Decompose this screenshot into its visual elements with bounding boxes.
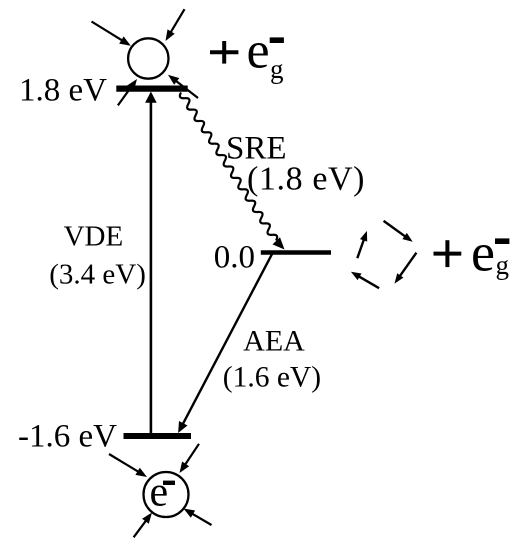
svg-text:1.8 eV: 1.8 eV bbox=[19, 72, 107, 108]
svg-text:g: g bbox=[496, 250, 510, 280]
svg-text:e: e bbox=[471, 223, 495, 283]
arrow VDE: vertical from -1.6 eV level up to 1.8 eV level bbox=[145, 92, 157, 434]
svg-text:-1.6 eV: -1.6 eV bbox=[18, 418, 117, 454]
circle with e(-): localized electron at -1.6 eV level bbox=[144, 470, 189, 518]
arrow AEA: from 0.0 level down to -1.6 eV level bbox=[178, 253, 273, 433]
level line 0.0 (neutral ground state) bbox=[261, 250, 331, 255]
level line -1.6 eV (anion ground state) bbox=[124, 433, 192, 439]
svg-text:AEA: AEA bbox=[243, 325, 305, 358]
svg-text:g: g bbox=[270, 54, 284, 84]
svg-text:(1.6 eV): (1.6 eV) bbox=[223, 361, 321, 393]
arrow into bottom circle, lower-right bbox=[184, 509, 212, 526]
svg-text:0.0: 0.0 bbox=[214, 240, 255, 276]
svg-text:(3.4 eV): (3.4 eV) bbox=[49, 259, 146, 291]
svg-text:e: e bbox=[150, 470, 169, 516]
formula + e_g^- (right of 0.0 level) bbox=[434, 223, 510, 283]
level line 1.8 eV (excited anion state) bbox=[116, 85, 187, 91]
svg-text:e: e bbox=[247, 23, 270, 80]
arrow into bottom circle, upper-left bbox=[109, 454, 147, 477]
arrow into top circle, lower-left bbox=[118, 79, 137, 105]
vibration arrow, right side pointing down-left bbox=[395, 253, 417, 284]
vibration arrow, top side pointing down-right bbox=[384, 221, 413, 242]
arrow into top circle, lower-right bbox=[168, 75, 198, 98]
circle: excited electron above 1.8 eV level bbox=[128, 38, 168, 78]
arrow into bottom circle, lower-left bbox=[134, 513, 152, 538]
arrow into bottom circle, upper-right bbox=[180, 444, 200, 473]
arrow into top circle, upper-left bbox=[92, 22, 131, 46]
vibration arrow, left side pointing up bbox=[357, 231, 367, 258]
arrow into top circle, upper-right bbox=[166, 9, 185, 41]
svg-text:VDE: VDE bbox=[64, 221, 124, 253]
vibration arrow, bottom side pointing up-left bbox=[351, 272, 379, 288]
formula + e_g^- (top) bbox=[210, 23, 284, 84]
svg-text:(1.8 eV): (1.8 eV) bbox=[247, 161, 365, 198]
wavy arrow SRE: from 1.8 eV level down to 0.0 level bbox=[180, 93, 285, 250]
